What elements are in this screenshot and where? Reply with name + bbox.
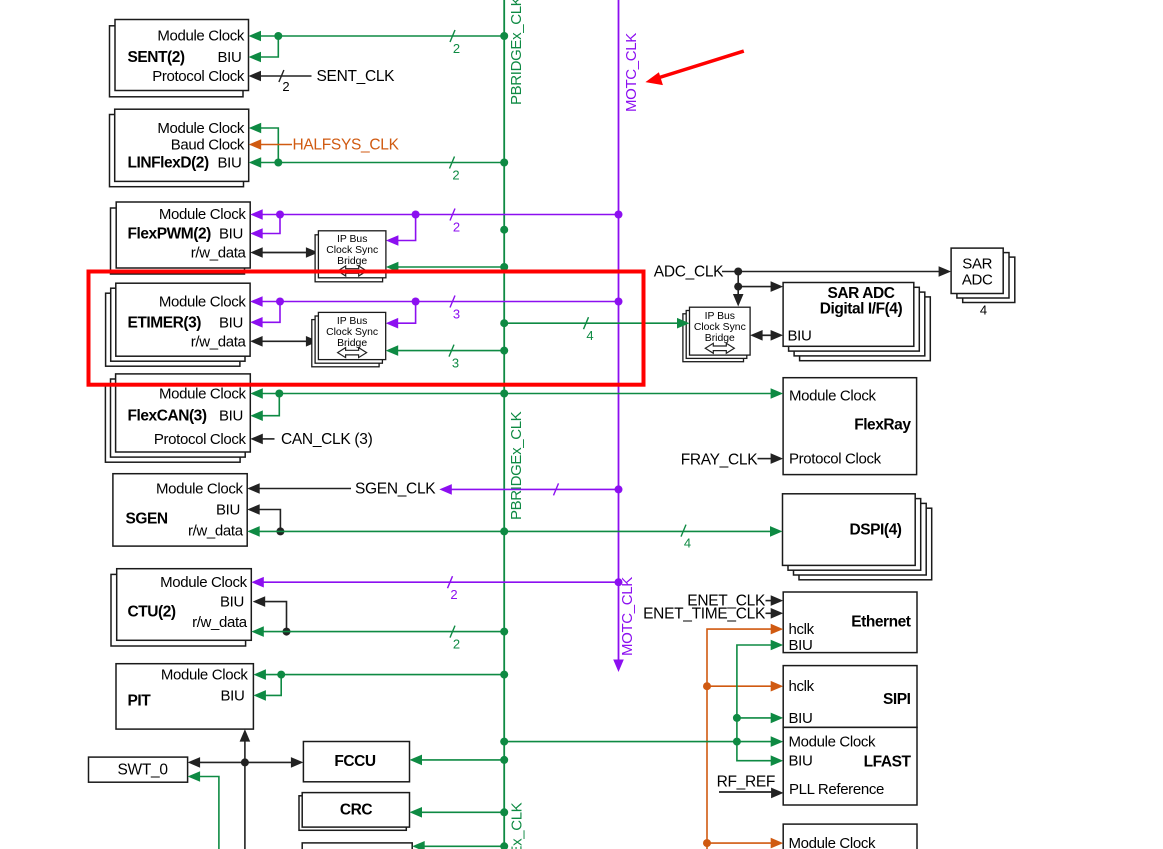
slash /4 on DSPI wire — [681, 525, 686, 537]
wire: green arrow into DSPI — [770, 526, 783, 537]
svg-text:Baud Clock: Baud Clock — [171, 137, 245, 154]
junction dot SWT/FCCU — [241, 758, 249, 766]
svg-text:Module Clock: Module Clock — [157, 120, 245, 137]
svg-text:BIU: BIU — [219, 226, 243, 243]
svg-text:HALFSYS_CLK: HALFSYS_CLK — [293, 137, 400, 154]
block DSPI(4) — [783, 494, 916, 566]
svg-text:SENT_CLK: SENT_CLK — [317, 68, 396, 85]
wire: green arrow into LFAST BIU — [771, 755, 784, 766]
svg-text:4: 4 — [684, 536, 691, 551]
block IP Bus Clock Sync Bridge (SAR) — [690, 307, 751, 355]
svg-text:SWT_0: SWT_0 — [118, 762, 169, 779]
wire: ENET_CLK (black) — [766, 600, 774, 602]
slash /4 on right green wire — [584, 317, 589, 329]
block IP Bus Clock Sync Bridge (ETIMER) — [318, 312, 385, 359]
svg-text:SAR: SAR — [962, 256, 992, 273]
svg-text:2: 2 — [453, 637, 460, 652]
wire: green into SWT_0 — [188, 771, 201, 782]
svg-text:BIU: BIU — [218, 49, 242, 66]
svg-text:LINFlexD(2): LINFlexD(2) — [128, 155, 209, 172]
wire: orange net vertical — [707, 629, 774, 849]
wire: SGEN BIU (black elbow) — [247, 504, 260, 515]
svg-text:Module Clock: Module Clock — [156, 481, 244, 498]
svg-text:Module Clock: Module Clock — [159, 294, 247, 311]
wire: FlexCAN BIU (green elbow) — [261, 394, 280, 416]
svg-text:BIU: BIU — [219, 315, 243, 332]
svg-text:r/w_data: r/w_data — [188, 523, 244, 540]
svg-text:Protocol Clock: Protocol Clock — [154, 431, 247, 448]
SENT block shadow — [110, 26, 244, 97]
block PIT — [116, 664, 253, 729]
block SAR ADC Digital I/F(4) — [783, 283, 914, 347]
block bottom-left (cut) — [302, 843, 412, 849]
svg-text:MOTC_CLK: MOTC_CLK — [619, 577, 636, 656]
svg-text:BIU: BIU — [789, 710, 813, 727]
double arrow glyph in SAR bridge — [705, 343, 734, 353]
wire: LINFlexD Module Clock (green elbow from BIU net) — [249, 123, 262, 134]
svg-text:SIPI: SIPI — [883, 691, 911, 708]
svg-text:Bridge: Bridge — [705, 333, 735, 344]
red highlight rectangle — [89, 272, 644, 385]
svg-text:IP Bus: IP Bus — [337, 234, 367, 245]
bridge 2 shadows — [312, 320, 379, 367]
wire: FlexPWM r/w_data (black double arrow) — [250, 247, 263, 258]
wire: black to FCCU — [245, 761, 294, 763]
svg-text:Bridge: Bridge — [337, 338, 367, 349]
svg-text:CRC: CRC — [340, 802, 372, 819]
block IP Bus Clock Sync Bridge (FlexPWM) — [318, 231, 386, 278]
wire: RF_REF (black with underline) — [719, 791, 774, 793]
block ETIMER(3) — [116, 283, 250, 356]
svg-text:PBRIDGEx_CLK: PBRIDGEx_CLK — [508, 0, 525, 105]
wire: ADC_CLK (black tree) — [722, 271, 738, 273]
svg-text:r/w_data: r/w_data — [191, 334, 247, 351]
wire: SGEN Module Clock (black) — [247, 483, 260, 494]
wire: SENT Module Clock (green) — [249, 31, 262, 42]
wire: SGEN_CLK (purple from MOTC bus) — [439, 484, 452, 495]
svg-text:PLL Reference: PLL Reference — [789, 781, 884, 798]
svg-text:RF_REF: RF_REF — [717, 773, 775, 790]
wire: black up-arrow into PIT bottom — [240, 729, 251, 742]
svg-text:Module Clock: Module Clock — [789, 387, 877, 404]
wire: green arrow into FlexRay Module Clock — [771, 388, 784, 399]
wire: purple branch to bridge 1 — [397, 215, 416, 241]
svg-text:2: 2 — [282, 79, 289, 94]
SAR ADC stack shadows — [963, 257, 1015, 302]
svg-text:PIT: PIT — [128, 693, 152, 710]
svg-text:Module Clock: Module Clock — [159, 386, 247, 403]
wire: FlexPWM Module Clock (purple) — [250, 209, 263, 220]
wire: black double arrow bridge-BIU — [750, 330, 763, 341]
svg-text:Module Clock: Module Clock — [161, 667, 249, 684]
wire: FlexPWM BIU (purple elbow) — [261, 215, 280, 234]
wire: ETIMER BIU (purple elbow) — [261, 302, 280, 323]
wire: green bus to bottom-left block — [412, 841, 425, 849]
svg-text:BIU: BIU — [220, 594, 244, 611]
svg-text:ADC: ADC — [962, 272, 993, 289]
SAR bridge shadows — [683, 314, 744, 362]
wire: HALFSYS_CLK (orange) — [249, 139, 262, 150]
wire: black to SWT_0 — [188, 757, 201, 768]
LINFlexD block shadow — [110, 115, 244, 187]
slash /2 on CTU green wire — [450, 626, 455, 638]
svg-text:3: 3 — [452, 356, 459, 371]
block Ethernet — [783, 592, 917, 653]
svg-text:IP Bus: IP Bus — [337, 316, 367, 327]
block SWT_0 — [89, 757, 188, 782]
wire: SGEN r/w_data (green, continues to DSPI) — [247, 526, 260, 537]
svg-text:Clock Sync: Clock Sync — [326, 245, 378, 256]
red annotation arrow — [653, 51, 744, 79]
svg-text:DSPI(4): DSPI(4) — [850, 522, 902, 539]
wire: green to bridge 2 (/3) — [396, 350, 504, 352]
wire: orange branch to bottom block — [703, 839, 711, 847]
wire: ETIMER Module Clock (purple) — [250, 296, 263, 307]
svg-text:Protocol Clock: Protocol Clock — [789, 451, 882, 468]
svg-text:SGEN: SGEN — [126, 511, 168, 528]
block FlexCAN(3) — [116, 374, 251, 452]
wire: green bus to FCCU — [410, 755, 423, 766]
wire: green bus to ETIMER SAR feed (right, /4) — [504, 322, 678, 324]
svg-text:2: 2 — [453, 220, 460, 235]
wire: green arrow into SAR bridge — [677, 318, 690, 329]
svg-text:MOTC_CLK: MOTC_CLK — [623, 33, 640, 112]
wire: PIT BIU (green elbow) — [264, 675, 281, 696]
block SIPI — [783, 666, 917, 728]
svg-text:Module Clock: Module Clock — [789, 835, 877, 849]
block SENT(2) — [115, 20, 249, 91]
FlexPWM block shadow — [111, 208, 245, 274]
bridge 1 shadow — [315, 235, 383, 282]
svg-text:4: 4 — [980, 303, 987, 318]
block SAR ADC — [951, 248, 1003, 293]
MOTC_CLK bus (purple vertical) — [618, 0, 620, 661]
wire: green arrow into Ethernet BIU — [771, 640, 784, 651]
CTU block shadow — [111, 574, 246, 646]
svg-text:FlexPWM(2): FlexPWM(2) — [128, 226, 212, 243]
svg-text:BIU: BIU — [221, 687, 245, 704]
block FlexRay — [783, 378, 917, 475]
wire: green BIU net vertical — [737, 645, 774, 761]
ETIMER block shadows — [106, 293, 240, 366]
svg-text:r/w_data: r/w_data — [192, 614, 248, 631]
svg-text:PBRIDGEx_CLK: PBRIDGEx_CLK — [509, 802, 526, 849]
block LINFlexD(2) — [115, 109, 249, 181]
svg-text:Clock Sync: Clock Sync — [326, 327, 378, 338]
svg-text:2: 2 — [452, 168, 459, 183]
block bottom-right (cut) — [783, 824, 917, 849]
wire: FRAY_CLK (black) — [758, 458, 774, 460]
slash on SGEN_CLK purple wire — [554, 483, 559, 495]
wire: green LFAST module clock feed from bus — [500, 738, 508, 746]
svg-text:Digital I/F(4): Digital I/F(4) — [820, 301, 903, 318]
svg-text:PBRIDGEx_CLK: PBRIDGEx_CLK — [508, 411, 525, 520]
svg-text:ENET_TIME_CLK: ENET_TIME_CLK — [643, 605, 766, 622]
svg-text:3: 3 — [453, 307, 460, 322]
block SGEN — [113, 474, 247, 546]
svg-text:ADC_CLK: ADC_CLK — [654, 264, 724, 281]
wire: green bus to CRC — [410, 807, 423, 818]
DSPI stack shadows — [799, 508, 932, 580]
svg-text:BIU: BIU — [789, 637, 813, 654]
svg-text:Protocol Clock: Protocol Clock — [152, 68, 245, 85]
wire: green branch to SIPI BIU — [733, 714, 741, 722]
block CTU(2) — [117, 569, 252, 641]
wire: CTU r/w_data (green /2) — [251, 626, 263, 637]
wire: CTU BIU (black elbow) — [253, 596, 266, 607]
svg-text:r/w_data: r/w_data — [191, 245, 247, 262]
wire: purple branch to bridge 2 — [397, 302, 416, 324]
block FlexPWM(2) — [116, 202, 250, 268]
svg-text:FRAY_CLK: FRAY_CLK — [681, 452, 759, 469]
svg-text:FlexRay: FlexRay — [854, 417, 911, 434]
svg-text:2: 2 — [453, 41, 460, 56]
wire: SENT_CLK (black) — [249, 71, 262, 82]
svg-text:BIU: BIU — [219, 408, 243, 425]
slash /2 on FlexPWM purple wire — [450, 209, 455, 221]
wire: CAN_CLK (black) — [250, 434, 262, 445]
svg-text:Clock Sync: Clock Sync — [694, 322, 746, 333]
wire: PIT Module Clock (green) — [253, 669, 266, 680]
svg-text:Module Clock: Module Clock — [159, 206, 247, 223]
wire: FlexCAN Module Clock (green, continues to FlexRay) — [250, 388, 262, 399]
double arrow glyph in bridge 2 — [338, 348, 367, 358]
slash /2 on LINFlexD wire — [450, 157, 455, 169]
svg-text:IP Bus: IP Bus — [705, 311, 735, 322]
svg-text:Module Clock: Module Clock — [789, 734, 877, 751]
FlexCAN block shadows — [105, 384, 240, 462]
svg-text:Module Clock: Module Clock — [160, 574, 248, 591]
svg-text:FlexCAN(3): FlexCAN(3) — [128, 408, 207, 425]
wire: green to bridge 1 from bus — [396, 266, 504, 268]
svg-text:BIU: BIU — [788, 328, 812, 345]
wire: SENT BIU (green elbow) — [259, 36, 278, 57]
svg-text:LFAST: LFAST — [864, 754, 912, 771]
junction dot on green bus — [500, 226, 508, 234]
svg-text:Module Clock: Module Clock — [157, 28, 245, 45]
svg-text:Bridge: Bridge — [337, 256, 367, 267]
svg-text:CTU(2): CTU(2) — [128, 604, 176, 621]
svg-text:4: 4 — [586, 328, 593, 343]
slash /2 on CTU purple wire — [448, 576, 453, 588]
wire: CTU Module Clock (purple /2) — [251, 577, 263, 588]
svg-text:ETIMER(3): ETIMER(3) — [128, 315, 202, 332]
svg-text:FCCU: FCCU — [334, 753, 376, 770]
svg-text:2: 2 — [450, 587, 457, 602]
svg-text:BIU: BIU — [218, 155, 242, 172]
svg-text:CAN_CLK (3): CAN_CLK (3) — [281, 431, 373, 448]
wire: LINFlexD BIU (green) — [249, 157, 262, 168]
MOTC_CLK bus arrowhead (down) — [613, 660, 624, 673]
block FCCU — [303, 742, 409, 782]
svg-text:SAR ADC: SAR ADC — [828, 285, 895, 302]
PBRIDGEx_CLK bus (green vertical) — [503, 0, 505, 849]
CRC block shadow — [299, 796, 406, 831]
wire: ENET_TIME_CLK (black) — [766, 612, 774, 614]
block LFAST — [783, 727, 917, 805]
wire: orange branch to SIPI hclk — [703, 682, 711, 690]
svg-text:BIU: BIU — [789, 753, 813, 770]
svg-text:SGEN_CLK: SGEN_CLK — [355, 481, 436, 498]
svg-text:Ethernet: Ethernet — [851, 614, 911, 631]
double arrow glyph in bridge 1 — [338, 266, 367, 276]
svg-text:BIU: BIU — [216, 502, 240, 519]
slash /3 on ETIMER purple wire — [450, 296, 455, 308]
svg-text:hclk: hclk — [789, 621, 815, 638]
svg-text:hclk: hclk — [789, 678, 815, 695]
SAR ADC Digital I/F stack shadows — [800, 297, 931, 361]
block CRC — [302, 793, 409, 828]
svg-text:SENT(2): SENT(2) — [128, 49, 185, 66]
slash /3 on bridge 2 wire — [449, 345, 454, 357]
wire: ETIMER r/w_data (black double arrow) — [250, 336, 263, 347]
slash /2 on SENT green wire — [450, 30, 455, 42]
